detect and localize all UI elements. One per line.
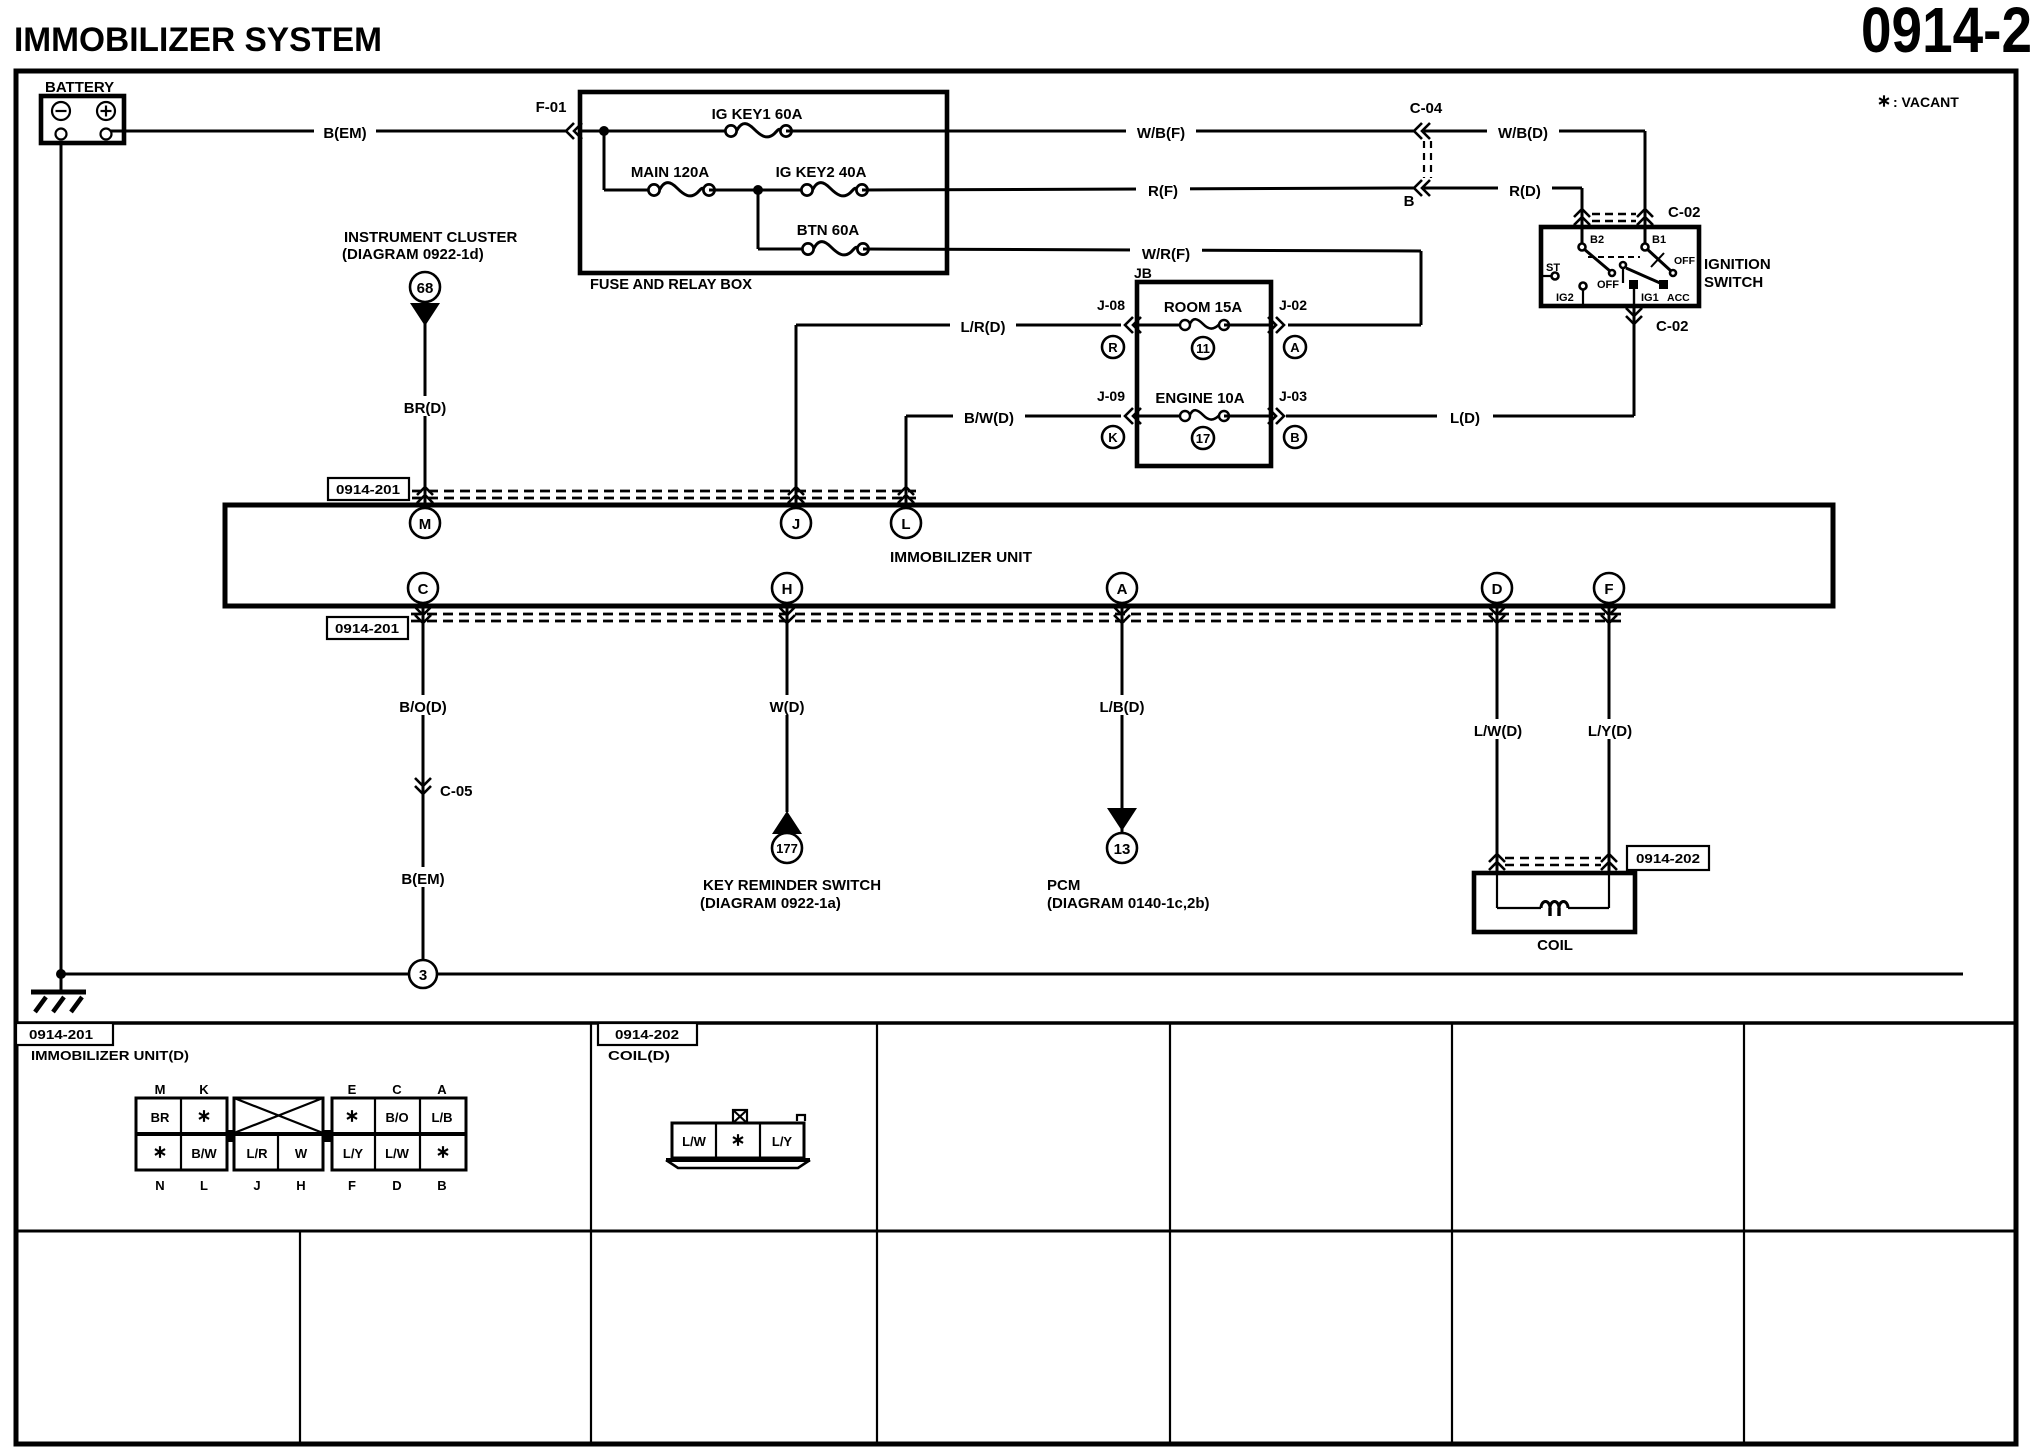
svg-text:3: 3	[419, 967, 427, 984]
wire branch to BTN fuse	[757, 190, 760, 249]
svg-text:B1: B1	[1652, 234, 1666, 246]
wire B/W(D)	[906, 406, 1121, 508]
wire L/R(D)	[796, 315, 1121, 508]
connector 0914-202 dashed line	[1489, 846, 1709, 870]
immobilizer unit	[225, 505, 1833, 606]
svg-text:ACC: ACC	[1667, 292, 1690, 304]
wire branch to MAIN fuse	[603, 131, 606, 190]
svg-text:(DIAGRAM 0922-1a): (DIAGRAM 0922-1a)	[700, 895, 841, 912]
pinout group pins E C A / * B/O L/B / L/Y L/W * / F D B	[323, 1082, 466, 1193]
svg-text:C: C	[392, 1082, 402, 1097]
wire R(F)	[862, 178, 1414, 200]
key reminder switch reference arrow 177	[700, 811, 881, 912]
svg-text:F: F	[348, 1178, 356, 1193]
svg-text:IGNITION: IGNITION	[1704, 256, 1771, 273]
svg-text:IMMOBILIZER SYSTEM: IMMOBILIZER SYSTEM	[14, 21, 382, 59]
wire label B(EM) lower	[394, 867, 452, 888]
svg-text:L(D): L(D)	[1450, 410, 1480, 427]
svg-text:H: H	[782, 581, 793, 598]
wire W/R(F)	[863, 241, 1421, 325]
table grid	[16, 1023, 2016, 1444]
wire L(D)	[1286, 406, 1634, 427]
svg-text:BR(D): BR(D)	[404, 400, 447, 417]
node 3 ground connection	[409, 960, 437, 988]
svg-text:F-01: F-01	[536, 99, 567, 116]
svg-text:B(EM): B(EM)	[401, 871, 444, 888]
wire R(D)	[1424, 178, 1582, 245]
svg-text:PCM: PCM	[1047, 877, 1080, 894]
connector C-05	[415, 778, 473, 800]
svg-text:IG KEY1 60A: IG KEY1 60A	[712, 106, 803, 123]
fuse ROOM 15A with connectors J-08/J-02 pins R,11,A	[1097, 297, 1307, 359]
svg-text:W(D): W(D)	[770, 699, 805, 716]
svg-text:J-08: J-08	[1097, 297, 1125, 313]
instrument cluster reference arrow 68	[342, 229, 517, 326]
svg-text:OFF: OFF	[1674, 255, 1696, 267]
svg-text:B: B	[437, 1178, 446, 1193]
wire ROOM output to W/R(F)	[1288, 324, 1421, 327]
svg-text:KEY REMINDER SWITCH: KEY REMINDER SWITCH	[703, 877, 881, 894]
svg-text:L/R: L/R	[247, 1146, 269, 1161]
svg-text:0914-201: 0914-201	[29, 1027, 93, 1042]
svg-text:D: D	[1492, 581, 1503, 598]
svg-text:N: N	[155, 1178, 164, 1193]
node battery ground junction	[56, 969, 66, 979]
wire L/W(D)	[1470, 603, 1526, 873]
wire L/B(D)	[1095, 603, 1149, 833]
connector 0914-201 bottom dashed line	[327, 607, 1627, 639]
svg-text:J-09: J-09	[1097, 388, 1125, 404]
svg-text:(DIAGRAM 0922-1d): (DIAGRAM 0922-1d)	[342, 246, 484, 263]
svg-text:B/W: B/W	[191, 1146, 217, 1161]
svg-text:A: A	[1290, 340, 1300, 355]
wire W/B(F)	[786, 120, 1414, 142]
svg-text:BATTERY: BATTERY	[45, 79, 114, 96]
svg-text:L: L	[200, 1178, 208, 1193]
svg-text:0914-202: 0914-202	[615, 1027, 679, 1042]
battery	[41, 79, 124, 143]
fuse and relay box	[580, 92, 947, 293]
svg-text:ROOM 15A: ROOM 15A	[1164, 299, 1243, 316]
svg-text:C-02: C-02	[1656, 318, 1689, 335]
svg-text:B/O(D): B/O(D)	[399, 699, 447, 716]
svg-text:17: 17	[1196, 431, 1210, 446]
svg-text:L/R(D): L/R(D)	[961, 319, 1006, 336]
svg-text:L/W(D): L/W(D)	[1474, 723, 1522, 740]
connector 0914-201 top dashed line	[328, 478, 916, 503]
svg-text:11: 11	[1196, 341, 1210, 356]
PCM reference arrow 13	[1047, 808, 1210, 912]
vacant note	[1879, 94, 1959, 110]
pinout coil connector L/W * L/Y	[666, 1110, 810, 1168]
svg-text:ENGINE 10A: ENGINE 10A	[1155, 390, 1244, 407]
svg-text:B2: B2	[1590, 234, 1604, 246]
svg-text:R(F): R(F)	[1148, 183, 1178, 200]
svg-text:J: J	[792, 516, 800, 533]
svg-text:L/Y: L/Y	[343, 1146, 364, 1161]
svg-text:R(D): R(D)	[1509, 183, 1541, 200]
svg-text:K: K	[1108, 430, 1118, 445]
wire L/Y(D)	[1582, 603, 1638, 873]
svg-text:M: M	[419, 516, 432, 533]
svg-text:68: 68	[417, 280, 434, 297]
pinout group crossed box / L/R W / J H	[227, 1098, 323, 1193]
svg-text:B/W(D): B/W(D)	[964, 410, 1014, 427]
svg-text:B/O: B/O	[385, 1110, 408, 1125]
connector F-01	[536, 99, 582, 139]
svg-text:W: W	[295, 1146, 308, 1161]
node F-01 junction	[599, 126, 609, 136]
fuse BTN 60A	[797, 222, 869, 255]
svg-text:B: B	[1290, 430, 1299, 445]
svg-text:L/B: L/B	[432, 1110, 453, 1125]
svg-text:L/Y: L/Y	[772, 1134, 793, 1149]
wire B/O(D)	[396, 603, 450, 974]
wire MAIN to IG KEY2	[709, 189, 807, 192]
wire W/B(D)	[1424, 120, 1645, 245]
svg-text:B: B	[1404, 193, 1415, 210]
svg-text:L: L	[901, 516, 910, 533]
svg-text:(DIAGRAM 0140-1c,2b): (DIAGRAM 0140-1c,2b)	[1047, 895, 1210, 912]
coil	[1474, 873, 1635, 954]
svg-text:J-02: J-02	[1279, 297, 1307, 313]
svg-text:J: J	[253, 1178, 260, 1193]
svg-text:COIL: COIL	[1537, 937, 1573, 954]
svg-text:177: 177	[776, 841, 798, 856]
wire fuse box feed	[580, 130, 731, 133]
ground bus wire	[61, 973, 1963, 976]
svg-text:D: D	[392, 1178, 401, 1193]
svg-text:: VACANT: : VACANT	[1893, 94, 1959, 110]
svg-text:C: C	[418, 581, 429, 598]
svg-text:BR: BR	[151, 1110, 170, 1125]
svg-text:IMMOBILIZER UNIT(D): IMMOBILIZER UNIT(D)	[31, 1048, 189, 1063]
node MAIN/IG KEY2 junction	[753, 185, 763, 195]
svg-text:J-03: J-03	[1279, 388, 1307, 404]
wire B(EM) battery to fuse box	[111, 120, 566, 142]
svg-text:R: R	[1108, 340, 1118, 355]
svg-text:C-04: C-04	[1410, 100, 1443, 117]
svg-text:IMMOBILIZER UNIT: IMMOBILIZER UNIT	[890, 549, 1032, 566]
fuse MAIN 120A	[631, 164, 715, 196]
svg-text:0914-201: 0914-201	[336, 482, 400, 497]
ignition switch U:IGNITION SWITCH	[1541, 227, 1771, 306]
svg-text:W/B(F): W/B(F)	[1137, 125, 1185, 142]
wire W(D)	[760, 603, 814, 812]
fuse ENGINE 10A with connectors J-09/J-03 pins K,17,B	[1097, 388, 1307, 449]
fuse IG KEY2 40A	[776, 164, 868, 196]
connector detail 0914-201 IMMOBILIZER UNIT(D)	[16, 1023, 189, 1063]
svg-text:H: H	[296, 1178, 305, 1193]
pinout group pins M K / BR * / * B/W / N L	[136, 1082, 227, 1193]
junction box JB	[1134, 265, 1271, 466]
svg-text:L/W: L/W	[385, 1146, 410, 1161]
svg-text:FUSE AND RELAY BOX: FUSE AND RELAY BOX	[590, 276, 752, 293]
connector detail 0914-202 COIL(D)	[598, 1023, 697, 1063]
svg-text:W/R(F): W/R(F)	[1142, 246, 1190, 263]
svg-text:IG1: IG1	[1641, 292, 1659, 304]
svg-text:A: A	[1117, 581, 1128, 598]
wire battery negative to ground bus	[60, 143, 63, 974]
svg-text:SWITCH: SWITCH	[1704, 274, 1763, 291]
ground symbol	[31, 974, 86, 1012]
svg-text:IG KEY2 40A: IG KEY2 40A	[776, 164, 867, 181]
svg-text:13: 13	[1114, 841, 1131, 858]
svg-text:C-02: C-02	[1668, 204, 1701, 221]
svg-text:E: E	[348, 1082, 357, 1097]
svg-text:0914-2: 0914-2	[1861, 0, 2032, 66]
svg-text:L/B(D): L/B(D)	[1100, 699, 1145, 716]
fuse IG KEY1 60A	[712, 106, 803, 137]
svg-text:F: F	[1604, 581, 1613, 598]
svg-text:0914-202: 0914-202	[1636, 851, 1700, 866]
connector C-02 bottom	[1626, 306, 1689, 416]
connector C-02 top	[1574, 204, 1701, 225]
svg-text:IG2: IG2	[1556, 292, 1574, 304]
svg-text:K: K	[199, 1082, 209, 1097]
svg-text:C-05: C-05	[440, 783, 473, 800]
connector C-04	[1404, 100, 1443, 210]
svg-text:B(EM): B(EM)	[323, 125, 366, 142]
wire BR(D)	[398, 323, 452, 508]
svg-text:JB: JB	[1134, 265, 1152, 281]
svg-text:0914-201: 0914-201	[335, 621, 399, 636]
svg-text:A: A	[437, 1082, 447, 1097]
svg-text:COIL(D): COIL(D)	[608, 1048, 670, 1063]
svg-text:L/W: L/W	[682, 1134, 707, 1149]
svg-text:OFF: OFF	[1597, 279, 1619, 291]
svg-text:BTN 60A: BTN 60A	[797, 222, 860, 239]
svg-text:L/Y(D): L/Y(D)	[1588, 723, 1632, 740]
svg-text:M: M	[155, 1082, 166, 1097]
svg-text:W/B(D): W/B(D)	[1498, 125, 1548, 142]
svg-text:INSTRUMENT CLUSTER: INSTRUMENT CLUSTER	[344, 229, 517, 246]
svg-text:MAIN 120A: MAIN 120A	[631, 164, 710, 181]
